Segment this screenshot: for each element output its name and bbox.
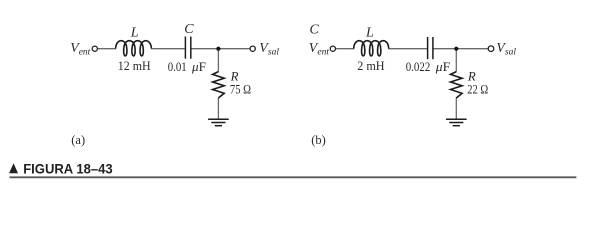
svg-text:R: R xyxy=(467,69,476,83)
svg-text:L: L xyxy=(130,26,139,41)
svg-text:sal: sal xyxy=(268,48,279,58)
svg-text:22 Ω: 22 Ω xyxy=(467,83,488,97)
svg-text:C: C xyxy=(184,22,194,37)
svg-text:sal: sal xyxy=(505,48,516,58)
svg-text:C: C xyxy=(310,23,320,38)
svg-text:(b): (b) xyxy=(311,133,326,147)
svg-text:L: L xyxy=(365,26,374,41)
svg-text:2 mH: 2 mH xyxy=(357,59,384,73)
svg-text:0.01: 0.01 xyxy=(168,60,187,74)
svg-text:(a): (a) xyxy=(71,133,85,147)
svg-text:μF: μF xyxy=(435,60,451,74)
svg-text:12 mH: 12 mH xyxy=(118,59,151,73)
svg-text:ent: ent xyxy=(79,48,91,58)
svg-text:0.022: 0.022 xyxy=(406,60,431,74)
svg-text:ent: ent xyxy=(317,48,329,58)
svg-text:75 Ω: 75 Ω xyxy=(230,83,251,97)
svg-text:R: R xyxy=(230,69,239,83)
svg-text:FIGURA 18–43: FIGURA 18–43 xyxy=(23,161,113,176)
svg-text:μF: μF xyxy=(191,60,206,74)
